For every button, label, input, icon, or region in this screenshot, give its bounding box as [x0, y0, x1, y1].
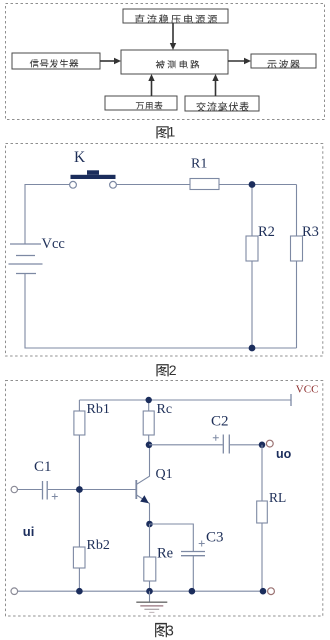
node: R1-R2-R3 top junction: [249, 181, 256, 188]
wire: collector to C2: [149, 444, 223, 446]
wire: base bias chain: [78, 400, 80, 591]
wire: input to C1: [18, 489, 42, 491]
wire: R3 branch: [296, 185, 298, 349]
svg-text:uo: uo: [276, 447, 292, 461]
wire: bottom rail: [18, 590, 263, 592]
capacitor C1: [43, 481, 58, 500]
svg-text:Vcc: Vcc: [42, 236, 65, 252]
resistor Rb2: [73, 547, 85, 568]
resistor RL: [257, 501, 268, 523]
svg-text:Re: Re: [157, 546, 173, 562]
terminal: input top: [11, 486, 17, 492]
block: oscilloscope 示波器: [251, 54, 316, 68]
resistor R3: [291, 236, 303, 261]
ground: [136, 591, 167, 612]
node: bottom junction: [249, 345, 256, 352]
node: emitter junction: [146, 521, 153, 528]
wire: top rail from battery to R1 and R3: [25, 185, 297, 245]
wire: emitter to Re: [149, 524, 151, 591]
block: signal generator 信号发生器: [12, 53, 100, 69]
node: collector junction: [146, 442, 153, 449]
svg-text:Rb1: Rb1: [87, 402, 110, 417]
terminal: output bottom: [268, 588, 275, 595]
svg-text:C2: C2: [211, 414, 229, 430]
arrow: power supply down to DUT: [170, 23, 176, 50]
wire: C3 to ground rail: [192, 556, 194, 591]
caption 图2: [156, 362, 176, 378]
node: top rail junction at Rc: [146, 397, 152, 403]
terminal: output top uo: [266, 440, 273, 447]
caption 图3: [155, 623, 174, 640]
svg-text:R3: R3: [302, 224, 319, 240]
switch K: [70, 170, 117, 188]
svg-text:C1: C1: [34, 459, 52, 475]
svg-text:Q1: Q1: [156, 467, 173, 482]
resistor R2: [246, 236, 258, 261]
svg-text:C3: C3: [206, 530, 224, 546]
wire: R2 branch: [251, 185, 253, 349]
resistor Re: [144, 557, 156, 581]
wire: C1 to base node: [48, 489, 136, 491]
svg-text:2: 2: [169, 362, 177, 378]
svg-text:VCC: VCC: [296, 384, 319, 396]
svg-text:1: 1: [168, 124, 176, 140]
wire: emitter to C3: [150, 524, 194, 551]
figure 3 dashed frame: [6, 381, 323, 617]
arrow: multimeter up to DUT: [148, 74, 154, 96]
block: AC millivoltmeter 交流毫伏表: [185, 96, 259, 111]
battery Vcc: [9, 244, 43, 274]
node: RL bottom junction: [260, 588, 267, 595]
capacitor C2: [213, 435, 230, 454]
terminal: input bottom: [11, 588, 18, 595]
node: output junction: [259, 442, 266, 449]
svg-text:Rb2: Rb2: [87, 538, 110, 553]
wire: VCC top rail: [79, 394, 291, 406]
arrow: DUT to oscilloscope: [228, 58, 251, 64]
transistor Q1: [136, 445, 149, 525]
node: Rb2 bottom junction: [76, 588, 83, 595]
arrow: millivoltmeter up to DUT: [212, 74, 218, 96]
wire: output to RL: [261, 445, 263, 591]
resistor R1: [190, 179, 219, 190]
caption 图1: [156, 124, 175, 140]
block: multimeter 万用表: [105, 96, 177, 110]
node: base junction: [76, 486, 83, 493]
resistor Rc: [143, 411, 154, 435]
svg-text:Rc: Rc: [157, 402, 173, 417]
wire: collector chain: [148, 400, 150, 445]
node: Re bottom junction: [146, 588, 153, 595]
svg-text:K: K: [74, 149, 86, 166]
figure 1 dashed frame: [6, 4, 325, 120]
svg-text:R1: R1: [191, 157, 207, 172]
resistor Rb1: [74, 411, 85, 435]
svg-text:3: 3: [166, 624, 174, 640]
capacitor C3: [181, 541, 205, 556]
block: DC regulated power supply 直流稳压电源源: [123, 9, 228, 23]
block: circuit under test 被测电路: [121, 50, 228, 74]
svg-text:ui: ui: [23, 524, 35, 539]
wire: bottom rail: [25, 274, 297, 349]
svg-text:R2: R2: [258, 224, 275, 240]
svg-text:RL: RL: [269, 490, 286, 505]
figure 2 dashed frame: [6, 144, 323, 357]
node: C3 bottom junction: [189, 588, 196, 595]
arrow: signal generator to DUT: [100, 58, 121, 64]
wire: C2 to output node: [230, 444, 262, 446]
